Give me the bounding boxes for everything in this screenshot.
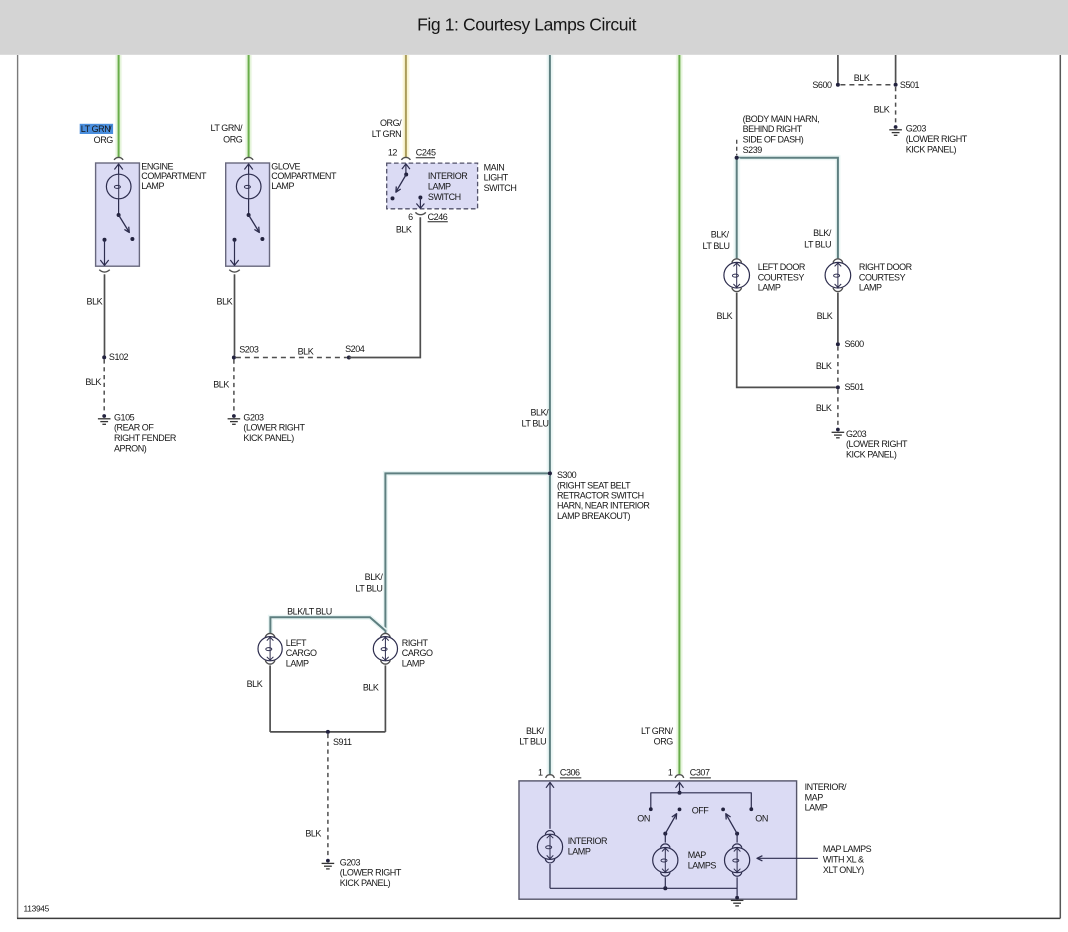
ground bus in interior/map lamp xyxy=(550,887,737,889)
svg-text:RIGHT: RIGHT xyxy=(402,638,429,648)
svg-text:BLK/: BLK/ xyxy=(365,572,384,582)
wire BLK/LT BLU trunk from top to C306 xyxy=(546,55,553,775)
svg-text:MAP: MAP xyxy=(805,792,824,802)
connector below right door courtesy lamp xyxy=(833,288,843,292)
ON contact right xyxy=(749,807,753,811)
svg-text:LAMP: LAMP xyxy=(402,659,425,669)
connector C307 xyxy=(675,775,684,778)
svg-text:S600: S600 xyxy=(812,80,832,90)
connector at left cargo lamp xyxy=(265,633,275,637)
connector at engine compartment lamp xyxy=(114,157,123,160)
svg-text:ORG: ORG xyxy=(654,737,674,747)
svg-text:BLK/: BLK/ xyxy=(530,407,549,417)
wire BLK from engine compartment lamp to S102 xyxy=(104,274,106,355)
svg-text:RIGHT DOOR: RIGHT DOOR xyxy=(859,262,913,272)
svg-text:BLK: BLK xyxy=(717,311,733,321)
svg-text:LAMP: LAMP xyxy=(758,283,781,293)
svg-text:GLOVE: GLOVE xyxy=(271,161,300,171)
connector at right door courtesy lamp xyxy=(833,259,843,263)
svg-text:KICK PANEL): KICK PANEL) xyxy=(906,145,957,155)
svg-text:LT BLU: LT BLU xyxy=(804,240,831,250)
connector cap at interior lamp xyxy=(545,831,555,835)
svg-text:ORG: ORG xyxy=(94,135,114,145)
junction dot on bus xyxy=(663,886,667,890)
diagram border frame xyxy=(17,55,19,918)
wire LT GRN/ORG feed to glove compartment lamp xyxy=(245,55,252,158)
svg-text:BLK: BLK xyxy=(213,380,229,390)
wire BLK S600 to S501 xyxy=(837,346,839,385)
svg-text:BLK: BLK xyxy=(217,296,233,306)
right map lamp xyxy=(736,834,738,843)
connector C306 xyxy=(546,775,555,778)
splice S102 xyxy=(102,355,106,359)
svg-text:LAMPS: LAMPS xyxy=(688,860,717,870)
connector cup below interior lamp xyxy=(545,859,555,863)
ground G203 top right xyxy=(894,125,898,129)
connector at left door courtesy lamp xyxy=(732,259,742,263)
svg-text:OFF: OFF xyxy=(692,806,710,816)
interior lamp switch xyxy=(387,163,478,209)
svg-text:G203: G203 xyxy=(340,857,361,867)
svg-text:ON: ON xyxy=(637,814,650,824)
svg-text:S300: S300 xyxy=(557,470,577,480)
svg-text:S911: S911 xyxy=(333,737,352,747)
svg-text:S501: S501 xyxy=(900,80,920,90)
ground at interior/map lamp xyxy=(735,896,739,900)
svg-text:COMPARTMENT: COMPARTMENT xyxy=(141,171,207,181)
left cargo lamp xyxy=(258,637,282,661)
connector below engine compartment lamp xyxy=(99,270,109,272)
svg-text:BLK: BLK xyxy=(816,403,832,413)
svg-text:G203: G203 xyxy=(906,124,927,134)
svg-text:XLT ONLY): XLT ONLY) xyxy=(823,865,864,875)
svg-text:(LOWER RIGHT: (LOWER RIGHT xyxy=(846,439,908,449)
wire BLK/LT BLU from S239 to right door courtesy lamp xyxy=(737,158,838,259)
svg-text:(REAR OF: (REAR OF xyxy=(114,423,154,433)
svg-text:MAIN: MAIN xyxy=(484,162,505,172)
ground G203 right door leg xyxy=(836,428,840,432)
right cargo lamp xyxy=(373,637,397,661)
wire BLK S501 to G203 xyxy=(895,87,897,124)
svg-text:MAP LAMPS: MAP LAMPS xyxy=(823,844,872,854)
wire from C306 to interior lamp xyxy=(549,783,551,829)
svg-text:LAMP: LAMP xyxy=(568,846,591,856)
svg-text:INTERIOR: INTERIOR xyxy=(568,836,608,846)
callout arrow map lamps xyxy=(757,857,818,859)
svg-text:BLK: BLK xyxy=(817,311,833,321)
svg-text:113945: 113945 xyxy=(24,903,50,913)
engine compartment lamp xyxy=(96,163,140,266)
left map lamp xyxy=(664,834,666,843)
wire stub above S239 xyxy=(736,140,738,155)
svg-text:LT GRN/: LT GRN/ xyxy=(641,726,673,736)
svg-text:LT GRN: LT GRN xyxy=(81,124,110,134)
svg-text:KICK PANEL): KICK PANEL) xyxy=(243,433,294,443)
svg-text:LEFT: LEFT xyxy=(286,638,307,648)
svg-text:LAMP: LAMP xyxy=(428,182,451,192)
svg-text:RETRACTOR SWITCH: RETRACTOR SWITCH xyxy=(557,491,644,501)
title bar xyxy=(0,0,1068,55)
connector C245 xyxy=(401,157,410,160)
svg-text:BLK: BLK xyxy=(298,346,314,356)
svg-text:LT BLU: LT BLU xyxy=(355,584,382,594)
svg-text:(LOWER RIGHT: (LOWER RIGHT xyxy=(243,423,305,433)
svg-text:WITH XL &: WITH XL & xyxy=(823,855,864,865)
svg-text:LIGHT: LIGHT xyxy=(484,173,509,183)
svg-text:S204: S204 xyxy=(345,344,365,354)
wire BLK S501 to G203 xyxy=(837,390,839,427)
svg-text:G203: G203 xyxy=(243,412,264,422)
svg-text:MAP: MAP xyxy=(688,850,707,860)
svg-text:LT GRN: LT GRN xyxy=(372,129,401,139)
wire BLK S600 to S501 xyxy=(840,84,893,86)
svg-text:BLK/LT BLU: BLK/LT BLU xyxy=(287,607,332,617)
wire BLK from S102 to G105 xyxy=(103,359,105,411)
svg-text:C245: C245 xyxy=(416,148,436,158)
splice S300 dot xyxy=(548,471,552,475)
wire BLK from S911 to G203 xyxy=(327,734,329,856)
wire BLK from S203 to G203 xyxy=(233,360,235,412)
connector at glove compartment lamp xyxy=(244,157,253,160)
svg-text:(LOWER RIGHT: (LOWER RIGHT xyxy=(906,134,968,144)
ground G105 xyxy=(102,414,106,418)
svg-text:KICK PANEL): KICK PANEL) xyxy=(340,878,391,888)
ON contact left xyxy=(649,807,653,811)
wire BLK from left cargo lamp to S911 xyxy=(269,665,271,732)
svg-text:SWITCH: SWITCH xyxy=(428,192,461,202)
wire ORG/LT GRN feed to interior lamp switch xyxy=(402,55,409,158)
svg-text:S501: S501 xyxy=(845,382,865,392)
left map lamp switch arm xyxy=(663,832,667,836)
map lamp switch feed junction xyxy=(678,791,682,795)
svg-text:APRON): APRON) xyxy=(114,443,147,453)
svg-text:1: 1 xyxy=(668,768,673,778)
svg-text:G105: G105 xyxy=(114,412,135,422)
svg-text:BLK: BLK xyxy=(396,225,412,235)
svg-text:BLK: BLK xyxy=(854,73,870,83)
wire LT GRN/ORG trunk to C307 xyxy=(676,55,683,775)
splice S204 xyxy=(347,356,351,360)
svg-text:LEFT DOOR: LEFT DOOR xyxy=(758,262,806,272)
wire BLK from S203 to S204 xyxy=(236,357,347,359)
splice S203 xyxy=(232,356,236,360)
wire BLK from right cargo lamp to S911 xyxy=(384,665,386,732)
connector below right cargo lamp xyxy=(381,660,391,664)
svg-text:LT BLU: LT BLU xyxy=(522,418,549,428)
svg-text:S239: S239 xyxy=(743,145,763,155)
ground G203 at S911 leg xyxy=(326,859,330,863)
svg-text:CARGO: CARGO xyxy=(286,648,317,658)
svg-text:SIDE OF DASH): SIDE OF DASH) xyxy=(743,135,804,145)
svg-text:6: 6 xyxy=(408,212,413,222)
wire BLK/LT BLU from S239 to left door courtesy lamp xyxy=(733,158,740,259)
splice S600 xyxy=(836,342,840,346)
splice S501 xyxy=(836,385,840,389)
wire stub to S600 xyxy=(837,55,839,83)
svg-text:LT GRN/: LT GRN/ xyxy=(210,123,242,133)
svg-text:(BODY MAIN HARN,: (BODY MAIN HARN, xyxy=(743,114,820,124)
svg-text:ORG/: ORG/ xyxy=(380,118,402,128)
splice S911 xyxy=(326,730,330,734)
svg-text:INTERIOR: INTERIOR xyxy=(428,171,468,181)
wire from C307 to map lamp switch xyxy=(679,783,681,793)
svg-text:BLK: BLK xyxy=(87,296,103,306)
wire from S204 to interior lamp switch C246 xyxy=(349,217,420,357)
svg-text:BEHIND RIGHT: BEHIND RIGHT xyxy=(743,124,803,134)
svg-text:LAMP BREAKOUT): LAMP BREAKOUT) xyxy=(557,511,631,521)
svg-text:RIGHT FENDER: RIGHT FENDER xyxy=(114,433,177,443)
svg-text:ORG: ORG xyxy=(223,135,243,145)
wire LT GRN/ORG feed to engine compartment lamp xyxy=(115,55,122,158)
svg-text:S102: S102 xyxy=(109,352,129,362)
svg-text:COURTESY: COURTESY xyxy=(758,272,805,282)
connector at right cargo lamp xyxy=(381,633,391,637)
svg-text:COURTESY: COURTESY xyxy=(859,272,906,282)
left door courtesy lamp xyxy=(724,262,750,288)
svg-text:ENGINE: ENGINE xyxy=(141,161,173,171)
svg-text:BLK: BLK xyxy=(874,104,890,114)
wire BLK bus at S911 xyxy=(270,731,385,733)
splice S600 top xyxy=(836,83,840,87)
svg-text:LAMP: LAMP xyxy=(286,659,309,669)
wire BLK from left door lamp to S501 xyxy=(737,293,836,388)
svg-text:C307: C307 xyxy=(690,768,710,778)
svg-text:(LOWER RIGHT: (LOWER RIGHT xyxy=(340,868,402,878)
svg-text:LT BLU: LT BLU xyxy=(519,737,546,747)
OFF contact right xyxy=(721,808,725,812)
interior lamp xyxy=(537,834,562,859)
splice S501 top xyxy=(894,83,898,87)
wire stub to S501 xyxy=(895,55,897,83)
svg-text:C246: C246 xyxy=(428,212,448,222)
svg-text:BLK/: BLK/ xyxy=(711,229,730,239)
wire interior lamp to ground bus xyxy=(549,864,551,888)
svg-text:1: 1 xyxy=(538,768,543,778)
connector below left cargo lamp xyxy=(265,660,275,664)
wire BLK/LT BLU to left cargo lamp xyxy=(270,617,385,633)
svg-text:Fig 1: Courtesy Lamps Circuit: Fig 1: Courtesy Lamps Circuit xyxy=(417,15,636,35)
svg-text:LAMP: LAMP xyxy=(859,283,882,293)
svg-text:BLK/: BLK/ xyxy=(813,228,832,238)
svg-text:12: 12 xyxy=(388,148,398,158)
svg-text:INTERIOR/: INTERIOR/ xyxy=(805,782,847,792)
label LT GRN highlighted selection xyxy=(80,124,113,134)
svg-text:LAMP: LAMP xyxy=(141,181,164,191)
svg-text:BLK: BLK xyxy=(816,361,832,371)
svg-text:HARN, NEAR INTERIOR: HARN, NEAR INTERIOR xyxy=(557,501,650,511)
svg-text:(RIGHT SEAT BELT: (RIGHT SEAT BELT xyxy=(557,481,631,491)
svg-text:LAMP: LAMP xyxy=(271,181,294,191)
svg-text:BLK: BLK xyxy=(363,683,379,693)
glove compartment lamp xyxy=(226,163,270,266)
wire BLK/LT BLU branch from S300 to cargo lamps xyxy=(385,473,550,633)
svg-text:BLK: BLK xyxy=(85,377,101,387)
svg-text:BLK: BLK xyxy=(247,679,263,689)
svg-text:BLK: BLK xyxy=(305,828,321,838)
svg-text:SWITCH: SWITCH xyxy=(484,183,517,193)
svg-text:C306: C306 xyxy=(560,768,580,778)
right door courtesy lamp xyxy=(825,262,851,288)
wire BLK from glove compartment lamp to S203 xyxy=(234,274,236,355)
interior/map lamp assembly xyxy=(519,781,797,899)
splice S239 xyxy=(735,156,739,160)
OFF contact left xyxy=(678,808,682,812)
svg-text:LT BLU: LT BLU xyxy=(703,241,730,251)
connector below left door courtesy lamp xyxy=(732,288,742,292)
svg-text:CARGO: CARGO xyxy=(402,648,433,658)
svg-text:S600: S600 xyxy=(845,339,865,349)
connector C246 xyxy=(415,212,425,214)
connector below glove compartment lamp xyxy=(229,270,239,272)
svg-text:BLK/: BLK/ xyxy=(526,726,545,736)
svg-text:KICK PANEL): KICK PANEL) xyxy=(846,450,897,460)
right map lamp switch arm xyxy=(735,832,739,836)
map lamp switch rail xyxy=(651,793,752,809)
svg-text:LAMP: LAMP xyxy=(805,803,828,813)
ground G203 lower right kick panel xyxy=(232,414,236,418)
svg-text:ON: ON xyxy=(755,814,768,824)
wire BLK from right door lamp to S600 xyxy=(837,293,839,343)
svg-text:COMPARTMENT: COMPARTMENT xyxy=(271,171,337,181)
svg-text:S203: S203 xyxy=(239,344,259,354)
svg-text:G203: G203 xyxy=(846,429,867,439)
